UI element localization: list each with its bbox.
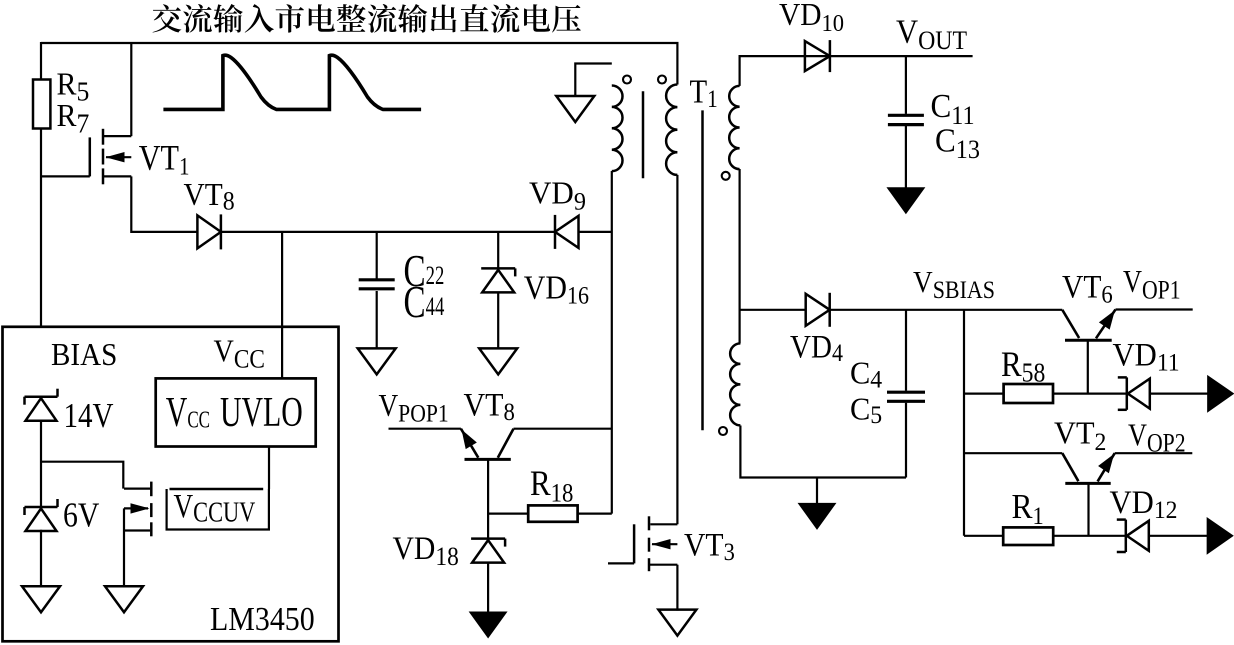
- transformer T1 secondary1 winding: [729, 86, 739, 169]
- wire primary drop: [676, 43, 678, 85]
- transformer T1 secondary2 winding: [730, 343, 740, 425]
- ground (aux winding): [556, 96, 594, 122]
- resistor R18: [528, 505, 577, 521]
- svg-text:14V: 14V: [64, 395, 114, 434]
- wire UVLO to VCCUV: [268, 447, 270, 490]
- title text 交流输入市电整流输出直流电压: [153, 4, 581, 33]
- wire R1 row mid: [1053, 535, 1126, 537]
- overline VCCUV: [170, 488, 264, 490]
- ground (C22): [358, 348, 396, 374]
- wire left rail mid: [40, 129, 42, 326]
- wire VD9 row right: [579, 231, 612, 233]
- output arrow (VD12): [1207, 518, 1232, 553]
- svg-text:LM3450: LM3450: [210, 599, 315, 637]
- resistor R5 R7: [33, 80, 50, 129]
- transformer T1 aux winding: [612, 86, 623, 172]
- wire R58 row mid: [1053, 393, 1127, 395]
- zener diode VD18: [471, 537, 505, 540]
- wire VT1 source down: [130, 176, 132, 233]
- transistor VT3 (MOSFET): [648, 516, 651, 530]
- wire rail mid2: [40, 420, 42, 507]
- zener diode VD11: [1126, 377, 1129, 409]
- resistor R1: [1003, 527, 1053, 545]
- wire VT8 collector to vertical: [514, 428, 612, 430]
- wire VSBIAS rail: [830, 309, 1062, 311]
- svg-text:6V: 6V: [63, 496, 100, 535]
- diode VD4: [806, 294, 830, 326]
- wire R58 row left: [964, 393, 1004, 395]
- wire VD12 row right: [1150, 535, 1209, 537]
- wire VOP2 rail: [1115, 452, 1193, 454]
- wire VOP1 rail: [1116, 308, 1193, 310]
- IC LM3450 box: [3, 327, 339, 642]
- output arrow (VD11): [1208, 376, 1233, 411]
- wire R18 row right: [578, 512, 612, 514]
- capacitor C22 C44: [376, 232, 378, 279]
- wire left rail upper: [40, 42, 42, 80]
- zener diode 14V: [25, 395, 58, 398]
- ground (C11 C13): [888, 188, 924, 213]
- wire gate branch: [41, 462, 123, 489]
- transformer T1 primary winding: [666, 85, 677, 175]
- transistor internal MOSFET (LM3450): [150, 482, 153, 497]
- wire primary to VT3: [676, 175, 678, 524]
- diode VD10: [805, 41, 830, 71]
- wire VD18 to ground: [487, 563, 489, 613]
- node aux polarity dot: [623, 76, 631, 84]
- node secondary2 polarity dot: [719, 427, 727, 435]
- node secondary1 polarity dot: [722, 172, 730, 180]
- wire VT3 source down: [676, 565, 678, 611]
- wire VT3 gate stub: [608, 562, 634, 564]
- wire VT6 base stem: [1087, 340, 1089, 393]
- wire internal MOSFET source to ground: [123, 508, 125, 587]
- ground (VD18): [470, 612, 506, 637]
- wire secondary2 down: [740, 426, 906, 478]
- wire VT8 base stem: [487, 459, 489, 538]
- transformer T1 core line 2: [701, 110, 704, 430]
- wire VSBIAS trunk down: [963, 310, 965, 536]
- block VCC UVLO box: [156, 378, 316, 446]
- wire secondary1 top: [740, 56, 973, 86]
- wire VD11 row right: [1151, 393, 1209, 395]
- wire VT2 collector rail: [964, 452, 1062, 454]
- wire secondary1 down: [738, 169, 740, 343]
- transistor VT6: [1065, 339, 1112, 342]
- transistor VT8 (BJT): [465, 458, 511, 461]
- wire VD4 row left: [740, 309, 806, 311]
- wire VT2 base stem: [1087, 483, 1089, 535]
- transistor VT1 (MOSFET): [89, 137, 92, 176]
- ground (internal MOSFET): [105, 586, 143, 612]
- wire top rail: [41, 42, 679, 44]
- wire VT1 drain up: [130, 43, 132, 136]
- diode VD9: [554, 215, 557, 249]
- wire VD9 row left: [131, 231, 197, 233]
- ground (bias rail): [22, 586, 60, 612]
- zener diode VD16: [497, 232, 499, 269]
- svg-text:BIAS: BIAS: [51, 337, 117, 373]
- wire aux down: [611, 171, 613, 514]
- zener diode 6V: [25, 506, 58, 509]
- waveform sawtooth: [163, 55, 421, 109]
- diode VT8: [197, 215, 221, 248]
- wire VCC drop: [281, 232, 283, 379]
- wire VT1 gate to rail: [41, 175, 90, 177]
- wire R18 row left: [488, 512, 528, 514]
- ground (VT3): [658, 610, 696, 636]
- wire rail to ground: [40, 530, 42, 587]
- block VCCUV box: [167, 489, 269, 530]
- wire VPOP1 stub: [389, 428, 461, 430]
- resistor R58: [1004, 384, 1053, 403]
- wire aux ground link: [575, 64, 612, 97]
- ground (VD16): [479, 348, 517, 374]
- transformer T1 core line 1: [642, 91, 645, 178]
- capacitor C11 C13: [905, 56, 907, 114]
- wire R1 row left: [964, 535, 1003, 537]
- capacitor C4 C5: [905, 310, 907, 391]
- zener diode VD12: [1125, 520, 1128, 552]
- ground (secondary2): [816, 478, 818, 505]
- node primary polarity dot: [658, 76, 666, 84]
- wire VD9 row mid: [221, 231, 555, 233]
- svg-text:VCCUVLO: VCCUVLO: [166, 389, 303, 435]
- transistor VT2: [1065, 482, 1110, 485]
